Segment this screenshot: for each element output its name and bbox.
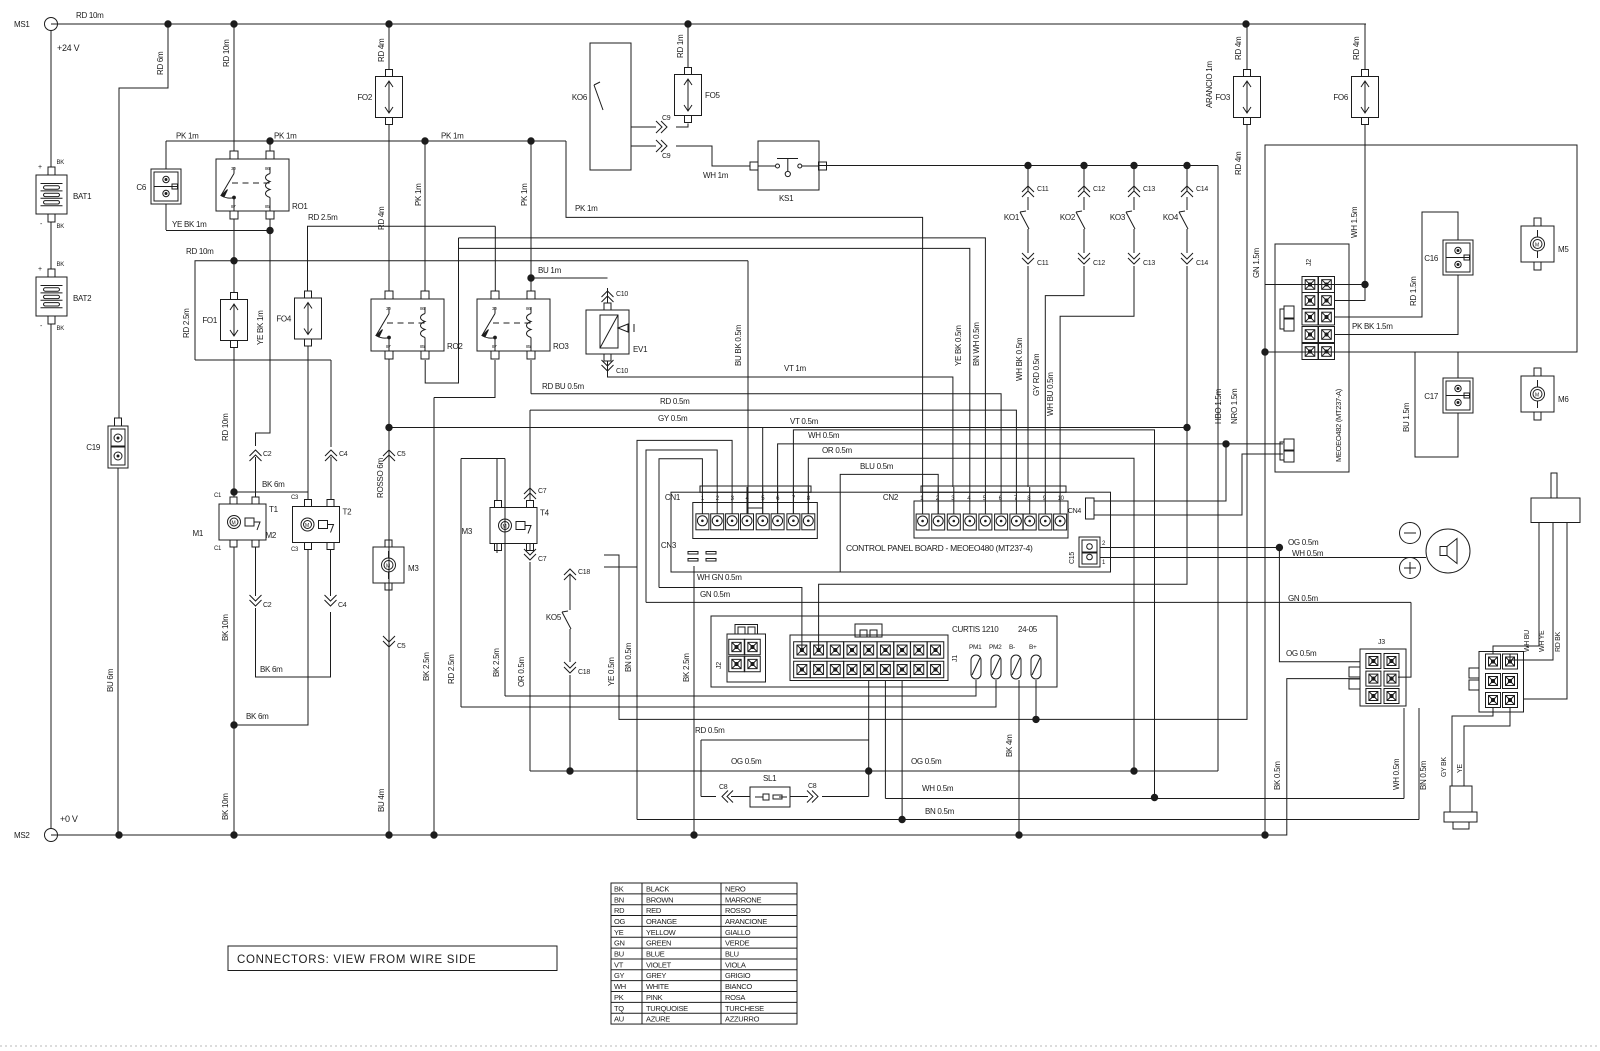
svg-text:SL1: SL1: [763, 774, 777, 783]
svg-text:FO4: FO4: [276, 315, 292, 324]
svg-text:C2: C2: [263, 451, 272, 458]
svg-text:10: 10: [1058, 496, 1065, 502]
svg-text:RD 10m: RD 10m: [222, 39, 231, 67]
svg-text:-: -: [40, 323, 43, 330]
svg-text:2: 2: [1102, 541, 1106, 547]
svg-text:J1: J1: [952, 655, 959, 662]
svg-text:RD 0.5m: RD 0.5m: [660, 397, 690, 406]
svg-text:BLU 0.5m: BLU 0.5m: [860, 462, 894, 471]
svg-text:C18: C18: [578, 669, 590, 676]
svg-text:KO6: KO6: [572, 93, 588, 102]
svg-text:GRIGIO: GRIGIO: [725, 971, 751, 980]
svg-text:PK 1m: PK 1m: [274, 132, 297, 141]
svg-text:C8: C8: [719, 784, 728, 791]
svg-text:J3: J3: [1378, 639, 1385, 646]
svg-text:RO1: RO1: [292, 202, 308, 211]
svg-text:PK: PK: [614, 993, 624, 1002]
svg-text:BK 0.5m: BK 0.5m: [1273, 761, 1282, 790]
svg-text:C8: C8: [808, 783, 817, 790]
svg-text:BN WH 0.5m: BN WH 0.5m: [972, 322, 981, 366]
svg-text:CN3: CN3: [661, 541, 677, 550]
svg-text:M1: M1: [192, 529, 203, 538]
svg-text:BK: BK: [57, 160, 65, 166]
svg-text:GN: GN: [614, 939, 625, 948]
svg-text:J2: J2: [1306, 259, 1313, 266]
svg-text:C10: C10: [616, 368, 628, 375]
svg-text:RD BU 0.5m: RD BU 0.5m: [542, 382, 585, 391]
svg-text:C10: C10: [616, 291, 628, 298]
svg-text:TQ: TQ: [614, 1004, 624, 1013]
svg-text:WH 0.5m: WH 0.5m: [922, 784, 954, 793]
svg-text:BAT2: BAT2: [73, 294, 92, 303]
svg-text:C3: C3: [291, 495, 299, 501]
svg-text:C17: C17: [1424, 392, 1439, 401]
svg-text:BK 4m: BK 4m: [1005, 734, 1014, 757]
svg-text:BU: BU: [614, 950, 624, 959]
svg-text:KO4: KO4: [1163, 213, 1179, 222]
svg-text:C7: C7: [538, 556, 547, 563]
svg-text:RD 4m: RD 4m: [1234, 151, 1243, 175]
svg-text:BN 0.5m: BN 0.5m: [624, 642, 633, 672]
svg-text:C11: C11: [1037, 260, 1049, 267]
svg-text:CONNECTORS: VIEW FROM WIRE: CONNECTORS: VIEW FROM WIRE SIDE: [237, 954, 476, 966]
svg-text:BLACK: BLACK: [646, 884, 669, 893]
svg-text:FO3: FO3: [1215, 93, 1231, 102]
svg-text:WH GN 0.5m: WH GN 0.5m: [697, 573, 742, 582]
svg-text:WH YE: WH YE: [1539, 630, 1546, 652]
svg-text:ORANGE: ORANGE: [646, 917, 677, 926]
svg-text:RD 10m: RD 10m: [76, 11, 104, 20]
svg-text:C15: C15: [1069, 552, 1076, 564]
svg-text:BK: BK: [614, 884, 624, 893]
svg-text:GN 0.5m: GN 0.5m: [700, 590, 731, 599]
svg-text:RD 6m: RD 6m: [156, 51, 165, 75]
svg-text:PK 1m: PK 1m: [520, 183, 529, 206]
svg-text:C9: C9: [662, 153, 671, 160]
svg-text:WH 0.5m: WH 0.5m: [808, 431, 840, 440]
svg-text:KS1: KS1: [779, 194, 794, 203]
svg-text:NERO: NERO: [725, 884, 746, 893]
svg-text:C9: C9: [662, 115, 671, 122]
svg-text:C5: C5: [397, 643, 406, 650]
svg-text:+: +: [38, 164, 42, 171]
svg-text:C2: C2: [263, 602, 272, 609]
svg-text:GN 0.5m: GN 0.5m: [1288, 594, 1319, 603]
svg-text:KO3: KO3: [1110, 213, 1126, 222]
svg-text:BU 4m: BU 4m: [377, 788, 386, 812]
svg-text:PK BK 1.5m: PK BK 1.5m: [1352, 322, 1393, 331]
svg-text:+: +: [38, 266, 42, 273]
svg-text:C3: C3: [291, 547, 299, 553]
svg-text:BK: BK: [57, 262, 65, 268]
svg-text:1: 1: [1102, 560, 1106, 566]
svg-text:M6: M6: [1558, 395, 1569, 404]
svg-text:C14: C14: [1196, 186, 1208, 193]
svg-text:VIOLA: VIOLA: [725, 960, 746, 969]
svg-text:YE BK 0.5m: YE BK 0.5m: [954, 325, 963, 366]
svg-text:24-05: 24-05: [1018, 625, 1038, 634]
svg-text:C12: C12: [1093, 186, 1105, 193]
svg-text:BU 1.5m: BU 1.5m: [1402, 402, 1411, 432]
svg-text:HBO 1.5m: HBO 1.5m: [1214, 388, 1223, 424]
svg-text:C4: C4: [338, 602, 347, 609]
svg-text:WH 0.5m: WH 0.5m: [1292, 549, 1324, 558]
svg-text:FO5: FO5: [705, 91, 721, 100]
svg-text:J2: J2: [716, 662, 723, 669]
svg-text:M: M: [386, 564, 390, 570]
svg-text:GY RD 0.5m: GY RD 0.5m: [1032, 353, 1041, 396]
svg-text:C18: C18: [578, 569, 590, 576]
svg-text:C1: C1: [214, 493, 222, 499]
svg-text:GREEN: GREEN: [646, 939, 671, 948]
svg-text:B+: B+: [1029, 644, 1037, 651]
svg-text:C4: C4: [339, 451, 348, 458]
svg-text:86: 86: [265, 166, 270, 171]
svg-text:RD 4m: RD 4m: [377, 206, 386, 230]
svg-text:RD 4m: RD 4m: [377, 38, 386, 62]
svg-text:RO2: RO2: [447, 342, 463, 351]
svg-text:WH 0.5m: WH 0.5m: [1392, 758, 1401, 790]
svg-text:FO2: FO2: [357, 93, 373, 102]
svg-text:RD 1.5m: RD 1.5m: [1409, 276, 1418, 306]
svg-text:BLUE: BLUE: [646, 950, 665, 959]
svg-text:RD 2.5m: RD 2.5m: [447, 654, 456, 684]
svg-text:OR 0.5m: OR 0.5m: [517, 656, 526, 687]
svg-text:TURQUOISE: TURQUOISE: [646, 1004, 688, 1013]
svg-text:PK 1m: PK 1m: [414, 183, 423, 206]
svg-text:VT 0.5m: VT 0.5m: [790, 417, 819, 426]
svg-text:C12: C12: [1093, 260, 1105, 267]
svg-text:OG 0.5m: OG 0.5m: [1286, 649, 1317, 658]
svg-text:BK 6m: BK 6m: [246, 712, 269, 721]
svg-text:MEOEO482 (MT237-A): MEOEO482 (MT237-A): [1334, 388, 1343, 462]
svg-text:YELLOW: YELLOW: [646, 928, 677, 937]
svg-text:ARANCIO 1m: ARANCIO 1m: [1205, 61, 1214, 108]
svg-text:C16: C16: [1424, 254, 1439, 263]
svg-text:VT: VT: [614, 960, 624, 969]
svg-text:ROSA: ROSA: [725, 993, 745, 1002]
svg-text:C13: C13: [1143, 186, 1155, 193]
svg-text:C1: C1: [214, 546, 222, 552]
svg-text:M3: M3: [461, 527, 472, 536]
svg-text:KO2: KO2: [1060, 213, 1076, 222]
svg-text:BK: BK: [57, 224, 65, 230]
svg-text:BU 6m: BU 6m: [106, 668, 115, 692]
svg-text:CN1: CN1: [665, 493, 681, 502]
svg-text:86: 86: [526, 306, 531, 311]
svg-text:C7: C7: [538, 488, 547, 495]
svg-text:BK 10m: BK 10m: [221, 793, 230, 820]
svg-text:M: M: [503, 524, 507, 530]
svg-text:M5: M5: [1558, 245, 1569, 254]
svg-text:85: 85: [420, 344, 425, 349]
svg-text:YE BK 1m: YE BK 1m: [256, 310, 265, 345]
svg-text:M3: M3: [408, 564, 419, 573]
svg-text:M: M: [1535, 243, 1539, 249]
svg-text:CN4: CN4: [1068, 508, 1082, 515]
svg-text:C6: C6: [136, 183, 146, 192]
svg-text:WH BU: WH BU: [1524, 630, 1531, 652]
svg-text:NRO 1.5m: NRO 1.5m: [1230, 388, 1239, 424]
svg-text:RD: RD: [614, 906, 625, 915]
svg-text:RD BK: RD BK: [1555, 631, 1562, 652]
svg-text:WH: WH: [614, 982, 626, 991]
svg-text:RD 4m: RD 4m: [1352, 36, 1361, 60]
svg-text:BU 1m: BU 1m: [538, 266, 562, 275]
svg-text:CN2: CN2: [883, 493, 899, 502]
svg-text:YE 0.5m: YE 0.5m: [607, 657, 616, 686]
svg-text:M: M: [305, 523, 309, 529]
svg-text:GY BK: GY BK: [1441, 757, 1448, 777]
svg-text:BAT1: BAT1: [73, 192, 92, 201]
svg-text:OG 0.5m: OG 0.5m: [911, 757, 942, 766]
svg-text:RD 2.5m: RD 2.5m: [308, 213, 338, 222]
svg-text:BN 0.5m: BN 0.5m: [1419, 760, 1428, 790]
svg-text:CONTROL PANEL BOARD - MEOEO480: CONTROL PANEL BOARD - MEOEO480 (MT237-4): [846, 543, 1033, 553]
svg-text:BU BK 0.5m: BU BK 0.5m: [734, 324, 743, 366]
svg-text:T1: T1: [269, 505, 279, 514]
svg-text:KO1: KO1: [1004, 213, 1020, 222]
svg-text:C5: C5: [397, 451, 406, 458]
svg-text:CURTIS 1210: CURTIS 1210: [952, 625, 999, 634]
svg-text:VERDE: VERDE: [725, 939, 750, 948]
svg-text:C13: C13: [1143, 260, 1155, 267]
svg-text:BN: BN: [614, 895, 624, 904]
svg-text:WH BU 0.5m: WH BU 0.5m: [1046, 372, 1055, 416]
svg-text:ROSSO 6m: ROSSO 6m: [376, 458, 385, 498]
svg-text:KO5: KO5: [546, 613, 562, 622]
svg-text:BIANCO: BIANCO: [725, 982, 752, 991]
svg-text:YE: YE: [1457, 764, 1464, 773]
svg-text:WH 1.5m: WH 1.5m: [1350, 206, 1359, 238]
svg-text:WHITE: WHITE: [646, 982, 669, 991]
svg-text:BK: BK: [57, 326, 65, 332]
svg-text:TURCHESE: TURCHESE: [725, 1004, 764, 1013]
svg-text:VT 1m: VT 1m: [784, 364, 807, 373]
svg-text:RED: RED: [646, 906, 662, 915]
svg-text:YE BK 1m: YE BK 1m: [172, 220, 207, 229]
svg-text:BK 2.5m: BK 2.5m: [682, 653, 691, 682]
svg-text:RD 10m: RD 10m: [221, 413, 230, 441]
svg-text:AZZURRO: AZZURRO: [725, 1015, 760, 1024]
svg-text:FO1: FO1: [202, 316, 218, 325]
svg-text:B-: B-: [1009, 644, 1015, 651]
svg-text:86: 86: [420, 306, 425, 311]
svg-text:-: -: [40, 221, 43, 228]
svg-text:C11: C11: [1037, 186, 1049, 193]
svg-text:BK 6m: BK 6m: [262, 480, 285, 489]
svg-text:ROSSO: ROSSO: [725, 906, 751, 915]
svg-text:MARRONE: MARRONE: [725, 895, 762, 904]
svg-text:PM1: PM1: [969, 644, 982, 651]
svg-text:M: M: [1535, 393, 1539, 399]
svg-text:RD 10m: RD 10m: [186, 247, 214, 256]
svg-text:RD 4m: RD 4m: [1234, 36, 1243, 60]
svg-text:RO3: RO3: [553, 342, 569, 351]
svg-text:M2: M2: [265, 531, 276, 540]
svg-text:WH 1m: WH 1m: [703, 171, 729, 180]
svg-text:AU: AU: [614, 1015, 624, 1024]
svg-text:85: 85: [265, 204, 270, 209]
svg-text:C19: C19: [86, 443, 101, 452]
svg-text:T2: T2: [343, 508, 353, 517]
svg-text:RD 2.5m: RD 2.5m: [182, 308, 191, 338]
svg-text:85: 85: [526, 344, 531, 349]
svg-text:WH BK 0.5m: WH BK 0.5m: [1015, 337, 1024, 381]
svg-text:RD 0.5m: RD 0.5m: [695, 726, 725, 735]
svg-text:BK 2.5m: BK 2.5m: [422, 652, 431, 681]
svg-text:GIALLO: GIALLO: [725, 928, 751, 937]
svg-text:BK 10m: BK 10m: [221, 614, 230, 641]
svg-text:+24 V: +24 V: [57, 43, 80, 53]
svg-text:GREY: GREY: [646, 971, 666, 980]
svg-text:BK 6m: BK 6m: [260, 665, 283, 674]
svg-text:FO6: FO6: [1333, 93, 1349, 102]
svg-text:YE: YE: [614, 928, 624, 937]
svg-text:OG 0.5m: OG 0.5m: [1288, 538, 1319, 547]
svg-text:PK 1m: PK 1m: [176, 132, 199, 141]
svg-text:MS2: MS2: [14, 831, 30, 840]
svg-text:RD 1m: RD 1m: [676, 34, 685, 58]
svg-text:BLU: BLU: [725, 950, 739, 959]
svg-text:PINK: PINK: [646, 993, 663, 1002]
svg-text:BN 0.5m: BN 0.5m: [925, 807, 955, 816]
svg-text:ARANCIONE: ARANCIONE: [725, 917, 767, 926]
svg-text:VIOLET: VIOLET: [646, 960, 672, 969]
svg-text:GY: GY: [614, 971, 625, 980]
svg-text:EV1: EV1: [633, 345, 648, 354]
svg-text:PK 1m: PK 1m: [575, 204, 598, 213]
svg-text:BK 2.5m: BK 2.5m: [492, 648, 501, 677]
svg-text:OR 0.5m: OR 0.5m: [822, 446, 853, 455]
svg-text:T4: T4: [540, 509, 550, 518]
svg-text:+0 V: +0 V: [60, 814, 78, 824]
svg-text:BROWN: BROWN: [646, 895, 673, 904]
svg-text:M: M: [232, 521, 236, 527]
svg-text:GN 1.5m: GN 1.5m: [1252, 247, 1261, 278]
svg-text:PK 1m: PK 1m: [441, 132, 464, 141]
svg-text:C14: C14: [1196, 260, 1208, 267]
svg-text:AZURE: AZURE: [646, 1015, 670, 1024]
svg-text:MS1: MS1: [14, 20, 30, 29]
svg-text:OG 0.5m: OG 0.5m: [731, 757, 762, 766]
svg-text:OG: OG: [614, 917, 626, 926]
svg-text:PM2: PM2: [989, 644, 1002, 651]
svg-text:GY 0.5m: GY 0.5m: [658, 414, 688, 423]
